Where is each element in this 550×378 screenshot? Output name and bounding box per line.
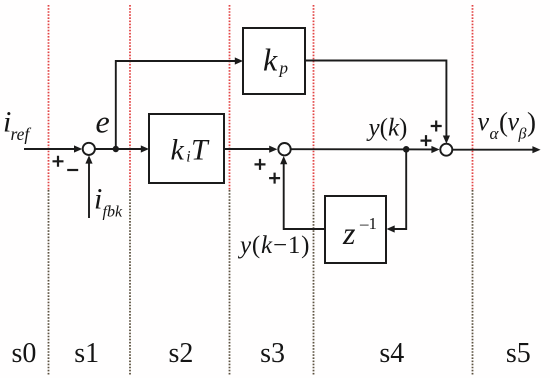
svg-text:α: α — [490, 124, 500, 143]
svg-text:β: β — [518, 126, 527, 143]
svg-text:k: k — [263, 42, 278, 78]
svg-text:i: i — [94, 183, 102, 216]
svg-text:i: i — [186, 149, 190, 166]
svg-text:ref: ref — [11, 124, 32, 144]
svg-text:s5: s5 — [506, 338, 531, 369]
svg-text:s1: s1 — [74, 338, 99, 369]
svg-text:y(k): y(k) — [366, 115, 408, 142]
svg-text:y(k−1): y(k−1) — [237, 232, 310, 259]
svg-text:s0: s0 — [12, 338, 37, 369]
svg-text:s2: s2 — [169, 338, 194, 369]
svg-text:p: p — [279, 59, 289, 78]
svg-text:k: k — [171, 134, 185, 167]
svg-text:s4: s4 — [379, 338, 404, 369]
svg-text:fbk: fbk — [103, 204, 123, 221]
svg-text:z: z — [342, 215, 356, 251]
svg-text:v: v — [478, 107, 490, 136]
svg-text:–1: –1 — [359, 214, 377, 233]
svg-text:s3: s3 — [260, 338, 285, 369]
svg-text:): ) — [527, 107, 536, 137]
svg-text:T: T — [191, 134, 210, 167]
svg-text:e: e — [96, 104, 110, 140]
